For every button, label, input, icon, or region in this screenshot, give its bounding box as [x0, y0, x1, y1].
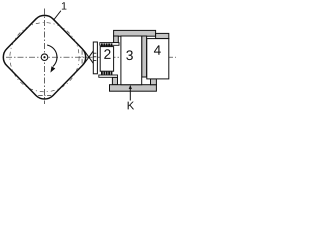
horizontal center line: [6, 56, 176, 58]
vertical center line: [44, 9, 46, 105]
workpiece 1 outline (rounded diamond): [3, 15, 85, 99]
frame upper-left leg: [114, 36, 119, 43]
force arrow K: [129, 88, 131, 100]
label 3: [126, 50, 133, 60]
frame top bar: [114, 30, 156, 36]
label K: [128, 102, 134, 110]
serration teeth above block 2: [101, 43, 112, 46]
pivot circle: [41, 54, 48, 61]
pivot center dot: [43, 56, 45, 58]
frame top-right step: [156, 33, 169, 38]
block 3: [121, 36, 142, 85]
serration teeth below block 2: [101, 72, 112, 75]
frame lower-left leg: [112, 77, 117, 84]
rotation direction arc: [47, 45, 57, 67]
leader line for label 1: [54, 11, 61, 21]
label 1: [62, 2, 67, 9]
label 4: [154, 45, 161, 54]
label 2: [104, 49, 110, 59]
rotation arrowhead: [50, 66, 55, 72]
actuator block 2: [100, 47, 113, 72]
corner tangent chord marks: [38, 50, 82, 95]
reference circle (dash-dot): [10, 23, 79, 92]
frame middle leg: [142, 36, 147, 77]
flexure hinge (X): [84, 51, 93, 64]
lower foot plate: [99, 75, 118, 77]
frame bottom-right upturn: [151, 79, 157, 85]
serrated plate: [93, 42, 97, 74]
block 4: [147, 39, 169, 79]
upper foot plate: [100, 43, 119, 46]
frame bottom bar: [110, 85, 157, 92]
